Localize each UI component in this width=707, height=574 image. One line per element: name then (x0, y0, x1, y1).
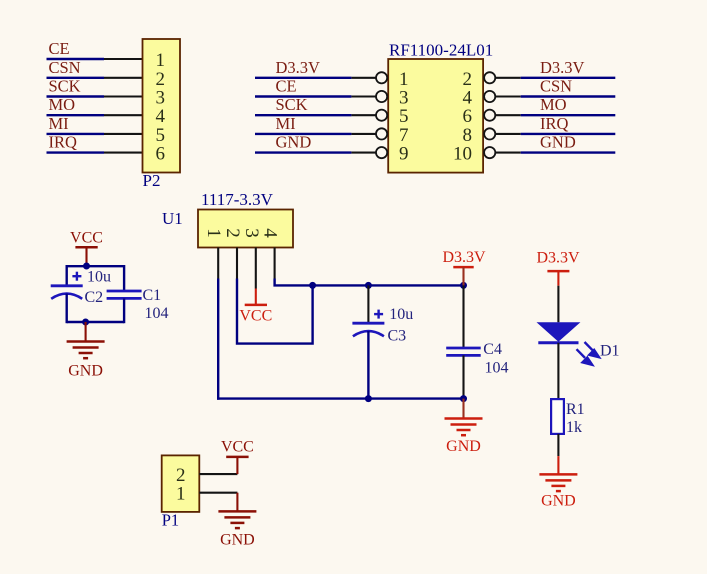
svg-text:VCC: VCC (221, 439, 254, 456)
svg-text:C1: C1 (143, 287, 162, 304)
wire net MI left (255, 133, 351, 135)
svg-text:MO: MO (540, 95, 567, 114)
svg-text:10u: 10u (389, 306, 413, 323)
connector P2 body (143, 39, 181, 173)
wire net D3.3V left (255, 77, 351, 79)
wire net CE to P2 pin 1 (47, 58, 143, 60)
wire LED to R1 (black) (557, 343, 559, 399)
svg-text:VCC: VCC (239, 308, 272, 325)
svg-text:MI: MI (49, 114, 69, 133)
wire left branch lower (65, 294, 67, 324)
svg-text:3: 3 (241, 228, 262, 238)
power VCC (P1, maroon) (221, 439, 254, 475)
svg-text:4: 4 (260, 228, 281, 238)
capacitor C2 (10u electrolytic) (51, 272, 83, 299)
regulator U1 body (198, 210, 293, 248)
left side wires (255, 78, 351, 153)
svg-text:6: 6 (156, 144, 166, 165)
node junction D3.3V (460, 282, 467, 289)
wire net CE left (255, 95, 351, 97)
svg-text:MI: MI (276, 114, 296, 133)
svg-text:C4: C4 (483, 341, 502, 358)
svg-text:SCK: SCK (276, 95, 308, 114)
svg-text:CSN: CSN (540, 77, 572, 96)
wire net MI to P2 pin 5 (47, 133, 143, 135)
svg-text:P1: P1 (162, 511, 179, 530)
wire U1 pin1 down (217, 279, 219, 400)
svg-text:D3.3V: D3.3V (540, 58, 585, 77)
svg-text:VCC: VCC (70, 230, 103, 247)
right net labels (540, 58, 585, 152)
left pins 1,3,5,7,9 with circles (351, 78, 376, 153)
IC U? RF1100 body (388, 59, 483, 173)
svg-text:GND: GND (276, 133, 312, 152)
wire P1 pin1 to GND (black) (199, 492, 237, 494)
svg-text:GND: GND (446, 438, 481, 455)
svg-text:R1: R1 (566, 401, 585, 418)
power VCC (U1 pin3, red) (239, 289, 272, 325)
svg-text:D3.3V: D3.3V (276, 58, 321, 77)
node junction at VCC (83, 263, 90, 270)
svg-text:SCK: SCK (49, 77, 81, 96)
LED arrows (577, 342, 600, 365)
svg-text:P2: P2 (143, 171, 161, 190)
P2 pin numbers 1-6 (156, 50, 166, 165)
capacitor C1 (104) (107, 291, 142, 298)
ground GND (P1, maroon) (218, 493, 256, 528)
pin circles left (376, 72, 387, 158)
svg-text:IRQ: IRQ (540, 114, 569, 133)
svg-text:9: 9 (399, 144, 409, 165)
power D3.3V (middle) (442, 249, 486, 285)
wire bottom rail (217, 397, 464, 399)
svg-text:GND: GND (540, 133, 576, 152)
wire net MO right (521, 114, 616, 116)
wire net CSN to P2 pin 2 (47, 77, 143, 79)
right pins 2,4,6,8,10 with circles (495, 78, 520, 153)
capacitor C3 lead top (black) (367, 285, 369, 323)
node junction pin2/top rail (309, 282, 316, 289)
capacitor C4 lead top (black) (462, 285, 464, 348)
U1 pin stubs (218, 248, 274, 289)
node junction at GND (82, 319, 89, 326)
wire net CSN right (521, 95, 616, 97)
wire R1 to GND (black) (557, 434, 559, 456)
wire net GND left (255, 151, 351, 153)
wire right branch upper (123, 265, 125, 291)
LED D1 (537, 322, 600, 365)
wire net IRQ to P2 pin 6 (47, 151, 143, 153)
svg-text:1: 1 (203, 228, 224, 238)
wire net D3.3V right (521, 77, 616, 79)
P1 pin numbers (176, 465, 186, 505)
wire D3.3V to LED (black) (557, 286, 559, 323)
capacitor C3 (10u electrolytic) (352, 310, 384, 337)
wire net IRQ right (521, 133, 616, 135)
wire U1 pin2 U-route (237, 279, 313, 344)
svg-text:1117-3.3V: 1117-3.3V (201, 190, 274, 209)
wire loop bottom (67, 321, 124, 323)
svg-text:D1: D1 (600, 343, 620, 360)
resistor R1 (551, 399, 564, 434)
node junction C3 bottom (365, 395, 372, 402)
RF1100 pin numbers (399, 69, 473, 165)
svg-text:GND: GND (68, 363, 103, 380)
svg-text:1k: 1k (566, 419, 582, 436)
svg-text:U1: U1 (162, 209, 183, 228)
power VCC (top-left) (70, 230, 103, 266)
svg-text:CSN: CSN (49, 58, 81, 77)
svg-text:C2: C2 (85, 289, 104, 306)
ground GND (LED, red) (539, 456, 577, 491)
svg-text:104: 104 (485, 360, 509, 377)
pin circles right (484, 72, 495, 158)
power D3.3V (LED) (536, 250, 580, 286)
svg-text:D3.3V: D3.3V (536, 250, 580, 267)
node junction bottom rail right (460, 395, 467, 402)
svg-text:GND: GND (541, 493, 576, 510)
U1 pin numbers rotated (203, 228, 280, 238)
capacitor C4 (104) (446, 348, 481, 355)
svg-text:C3: C3 (388, 328, 407, 345)
wire net SCK to P2 pin 3 (47, 95, 143, 97)
wire net GND right (521, 151, 616, 153)
right side wires (521, 78, 616, 153)
svg-text:10u: 10u (87, 269, 111, 286)
wire right branch lower (123, 298, 125, 323)
connector P1 body (162, 455, 200, 512)
svg-text:10: 10 (453, 144, 472, 165)
svg-text:IRQ: IRQ (49, 133, 78, 152)
left net labels (276, 58, 321, 152)
wire left branch upper (65, 265, 67, 286)
wire net SCK left (255, 114, 351, 116)
ground GND (middle, red) (445, 399, 483, 436)
svg-text:2: 2 (222, 228, 243, 238)
svg-text:104: 104 (145, 305, 169, 322)
svg-text:MO: MO (49, 95, 76, 114)
wire net MO to P2 pin 4 (47, 114, 143, 116)
svg-text:D3.3V: D3.3V (442, 249, 486, 266)
svg-text:RF1100-24L01: RF1100-24L01 (389, 41, 493, 60)
node junction C3 top (365, 282, 372, 289)
capacitor C4 lead bottom (black) (462, 355, 464, 398)
wire P1 pin2 to VCC (black) (199, 473, 237, 475)
svg-text:CE: CE (276, 77, 297, 96)
svg-text:1: 1 (176, 484, 186, 505)
ground GND (top-left, maroon) (67, 322, 105, 358)
wire C3 bottom (367, 331, 369, 399)
svg-text:CE: CE (49, 39, 70, 58)
wire U1 pin4 to top rail (275, 279, 464, 286)
svg-text:GND: GND (220, 532, 255, 549)
wire loop top (67, 265, 124, 267)
